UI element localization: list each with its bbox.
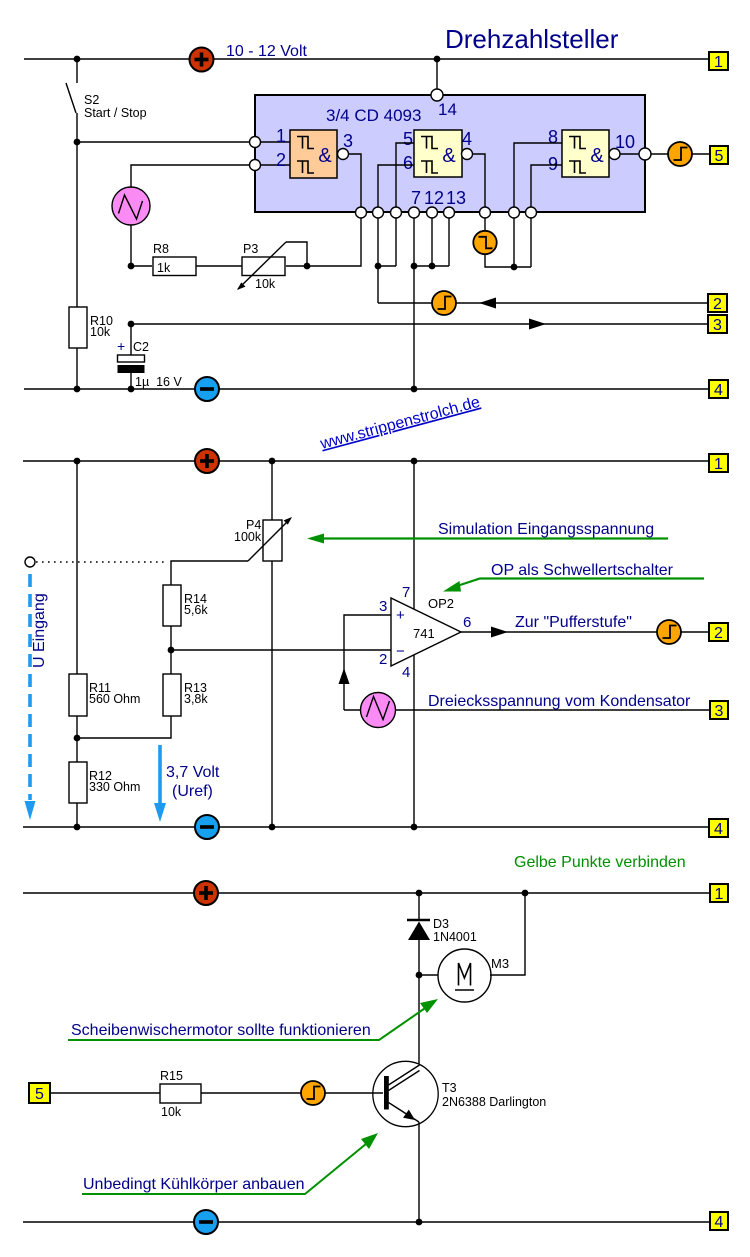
pin 8 bottom terminal circle [509, 207, 520, 218]
svg-text:4: 4 [462, 129, 472, 149]
svg-text:3: 3 [379, 598, 387, 615]
pin 13 bottom terminal circle [444, 207, 455, 218]
transistor T3 [373, 1061, 546, 1126]
terminal 2 (middle) [709, 623, 728, 642]
potentiometer P4 100k [234, 461, 292, 827]
ground rail bottom [23, 1221, 710, 1223]
capacitor C2 [117, 324, 182, 389]
svg-text:4: 4 [402, 664, 410, 681]
supply + symbol middle [195, 449, 219, 473]
wire pin4 to pins 8,9 [485, 218, 531, 267]
svg-text:3: 3 [713, 317, 722, 334]
svg-text:3/4 CD 4093: 3/4 CD 4093 [326, 106, 421, 125]
terminal 5 (bottom left) [29, 1083, 50, 1103]
green arrow Simulation Eingangsspannung [307, 534, 668, 544]
svg-text:14: 14 [438, 100, 457, 119]
wire line3 middle to terminal 3 [396, 709, 711, 711]
svg-text:Simulation Eingangsspannung: Simulation Eingangsspannung [438, 521, 654, 538]
node R11 top junction [74, 458, 81, 465]
svg-text:S2: S2 [84, 93, 99, 107]
node R10 ground junction [74, 386, 81, 393]
wire to base [325, 1092, 383, 1094]
svg-text:5: 5 [403, 129, 413, 149]
svg-text:3,7 Volt: 3,7 Volt [166, 764, 220, 781]
node emitter ground junction [416, 1219, 423, 1226]
svg-text:100k: 100k [234, 530, 262, 544]
supply - symbol bottom [194, 1210, 218, 1234]
op-amp OP2 741 [391, 596, 461, 666]
wire wiper to R14 [171, 561, 248, 585]
triangle-wave source symbol (oscillator) [112, 187, 150, 225]
node opamp supply junction [411, 458, 418, 465]
wire line 2 [378, 302, 432, 304]
svg-text:+: + [396, 607, 405, 624]
pin 14 terminal circle [431, 89, 443, 101]
wire to triangle source [344, 709, 361, 711]
wire R8 to P3 [196, 265, 242, 267]
IC CD4093 block [255, 95, 645, 212]
wire pin3 output [349, 154, 362, 207]
svg-text:330 Ohm: 330 Ohm [89, 780, 140, 794]
node gate1 input junction [74, 139, 81, 146]
node D3 junction [416, 890, 423, 897]
svg-text:&: & [442, 145, 456, 167]
node opamp ground junction [411, 824, 418, 831]
svg-text:3,8k: 3,8k [184, 692, 208, 706]
node pin8 junction [511, 264, 518, 271]
square pulse marker line2 (rising step) [432, 291, 456, 315]
wire pin2 inside block [261, 164, 291, 166]
pin 4 bottom terminal circle [480, 207, 491, 218]
+12V rail middle [23, 460, 709, 462]
U Eingang dashed arrow [25, 574, 36, 820]
svg-text:1N4001: 1N4001 [433, 930, 477, 944]
node R12 ground junction [74, 824, 81, 831]
svg-text:(Uref): (Uref) [172, 783, 213, 800]
gate U1A (NAND schmitt) [290, 130, 337, 178]
svg-text:Gelbe Punkte verbinden: Gelbe Punkte verbinden [514, 854, 686, 871]
wire osc to R8 node [130, 225, 132, 266]
svg-text:7: 7 [402, 584, 410, 601]
terminal 1 (top) [709, 52, 728, 71]
square pulse marker (rising step) [668, 142, 692, 166]
node R14/R13 junction [168, 647, 175, 654]
wire to motor [419, 974, 438, 976]
pin 12 bottom terminal circle [427, 207, 438, 218]
node S2 top junction [74, 56, 81, 63]
node motor left junction [416, 972, 423, 979]
arrowhead right output [491, 627, 508, 638]
svg-text:1: 1 [715, 886, 724, 903]
svg-text:2: 2 [714, 625, 723, 642]
label U Eingang [31, 593, 48, 668]
svg-text:2: 2 [713, 296, 722, 313]
supply + symbol bottom [194, 881, 218, 905]
resistor R14 5,6k [163, 585, 208, 674]
wire pin1 [77, 141, 250, 143]
ground rail top section [24, 388, 709, 390]
svg-text:4: 4 [715, 1214, 724, 1231]
resistor R13 3,8k [77, 674, 208, 738]
gate U1A output bubble [338, 149, 349, 160]
svg-text:Dreiecksspannung vom Kondensat: Dreiecksspannung vom Kondensator [428, 693, 691, 710]
green arrow OP als Schwellertschalter [443, 579, 704, 592]
svg-text:560 Ohm: 560 Ohm [89, 692, 140, 706]
wire pin4 output [473, 154, 486, 207]
svg-text:T3: T3 [442, 1081, 457, 1095]
wire emitter to ground rail [418, 1122, 420, 1222]
wire R15 to marker [201, 1092, 301, 1094]
svg-text:10k: 10k [90, 325, 111, 339]
dotted wire input to wiper node [36, 561, 166, 563]
svg-text:5,6k: 5,6k [184, 603, 208, 617]
terminal 4 (top) [709, 380, 728, 399]
square pulse marker base (rising step) [301, 1081, 325, 1105]
svg-text:7: 7 [411, 188, 421, 208]
triangle-wave source symbol (capacitor voltage) [361, 693, 396, 728]
svg-text:1: 1 [276, 126, 286, 146]
potentiometer P3 10k [237, 242, 307, 291]
arrowhead up on input wire [339, 668, 350, 684]
wire U1B inputs tie [378, 218, 396, 303]
wire pin1 inside block [261, 141, 291, 143]
pin 14 wire [436, 59, 438, 89]
gate U1B (NAND schmitt) [414, 130, 462, 177]
node pin7 junction [411, 263, 418, 270]
svg-text:2N6388 Darlington: 2N6388 Darlington [442, 1095, 546, 1109]
svg-text:4: 4 [714, 382, 723, 399]
wire non-inverting input [344, 615, 391, 710]
svg-text:5: 5 [35, 1086, 44, 1103]
arrowhead left line2 [479, 298, 496, 309]
svg-text:8: 8 [548, 127, 558, 147]
wire to R8 [131, 265, 152, 267]
wire to terminal 5 [692, 153, 710, 155]
input terminal open circle [25, 557, 35, 567]
gate U1B output bubble [462, 149, 473, 160]
arrowhead right line3 [529, 319, 546, 330]
node R8 junction [128, 263, 135, 270]
terminal 3 (top) [708, 315, 727, 334]
svg-text:Unbedingt Kühlkörper anbauen: Unbedingt Kühlkörper anbauen [83, 1176, 305, 1193]
gate U1C input wires [514, 143, 562, 207]
wire collector [418, 975, 420, 1070]
svg-text:M3: M3 [491, 956, 509, 971]
svg-text:10k: 10k [161, 1105, 182, 1119]
node R11/R12 junction [74, 735, 81, 742]
svg-text:5: 5 [715, 148, 724, 165]
node C2 ground junction [128, 386, 135, 393]
wire terminal5 to R15 [50, 1092, 160, 1094]
gate U1B input wires [396, 143, 414, 207]
svg-text:+: + [117, 338, 125, 354]
green arrow to motor [68, 999, 438, 1040]
svg-text:2: 2 [379, 651, 387, 668]
wire pin2 [131, 165, 250, 187]
wire line 3 [131, 323, 708, 325]
svg-text:Start / Stop: Start / Stop [84, 106, 147, 120]
supply - symbol top section [195, 377, 219, 401]
motor M3 [438, 949, 509, 1002]
resistor R11 560 Ohm [69, 461, 140, 762]
svg-text:2: 2 [276, 150, 286, 170]
svg-text:−: − [396, 643, 405, 660]
pin 1 terminal circle [250, 137, 261, 148]
diode D3 1N4001 [407, 893, 477, 975]
svg-text:12: 12 [424, 188, 444, 208]
square pulse marker output (rising step) [657, 620, 681, 644]
svg-text:4: 4 [714, 821, 723, 838]
svg-text:&: & [590, 145, 604, 167]
terminal 1 (middle) [709, 454, 728, 473]
pin 6 bottom terminal circle [373, 207, 384, 218]
node line3 junction [128, 321, 135, 328]
terminal 1 (bottom) [710, 884, 728, 903]
svg-text:C2: C2 [133, 340, 149, 354]
svg-text:10k: 10k [255, 277, 276, 291]
square pulse marker (falling step) [473, 231, 496, 254]
svg-text:1: 1 [714, 456, 723, 473]
wire op-amp output [461, 631, 657, 633]
switch S2 [66, 59, 147, 142]
svg-text:&: & [318, 145, 332, 167]
node motor junction [522, 890, 529, 897]
ground rail middle [23, 826, 709, 828]
wire to square-pulse marker [651, 153, 668, 155]
node pin7 ground junction [411, 386, 418, 393]
svg-text:741: 741 [413, 626, 435, 641]
green arrow to transistor [82, 1133, 378, 1194]
supply + symbol [190, 48, 214, 72]
svg-text:1µ 16 V: 1µ 16 V [135, 375, 182, 389]
wire pin10 output [620, 153, 639, 155]
pin 5 bottom terminal circle [391, 207, 402, 218]
pin 2 terminal circle [250, 160, 261, 171]
wire ground pins 7 12 13 [414, 218, 449, 389]
www.strippenstrolch.de watermark [318, 394, 482, 453]
Uref arrow [154, 745, 166, 822]
terminal 4 (middle) [709, 819, 728, 838]
resistor R12 330 Ohm [69, 762, 140, 827]
svg-text:R8: R8 [153, 242, 169, 256]
svg-text:P3: P3 [243, 242, 258, 256]
svg-text:6: 6 [463, 614, 471, 631]
gate U1C (NAND schmitt) [562, 130, 609, 177]
node P4 ground junction [269, 824, 276, 831]
resistor R8 1k [153, 242, 196, 276]
terminal 4 (bottom) [710, 1212, 728, 1231]
svg-text:13: 13 [446, 188, 466, 208]
svg-text:www.strippenstrolch.de: www.strippenstrolch.de [318, 394, 482, 453]
wire line2 to terminal 2 [456, 302, 708, 304]
svg-text:1: 1 [714, 54, 723, 71]
svg-text:Drehzahlsteller: Drehzahlsteller [445, 24, 619, 54]
pin 9 bottom terminal circle [526, 207, 537, 218]
svg-text:OP2: OP2 [428, 596, 454, 611]
terminal 3 (middle) [710, 701, 728, 720]
svg-text:1k: 1k [157, 261, 171, 275]
resistor R10 10k [69, 142, 113, 389]
block edge terminal circle pin10 [639, 148, 651, 160]
node pin14 junction [434, 56, 441, 63]
svg-text:9: 9 [548, 154, 558, 174]
wire to terminal 2 middle [681, 631, 709, 633]
wire inverting input [171, 649, 391, 651]
svg-text:3: 3 [715, 703, 724, 720]
node pin12 junction [429, 263, 436, 270]
svg-text:U Eingang: U Eingang [31, 593, 48, 668]
wire P3 to pin3 [286, 218, 361, 266]
pin 7 bottom terminal circle [409, 207, 420, 218]
node P3 wiper junction [304, 263, 311, 270]
wire motor to rail [490, 893, 525, 975]
pin 3 bottom terminal circle [356, 207, 367, 218]
supply - symbol middle [195, 815, 219, 839]
svg-text:D3: D3 [433, 917, 449, 931]
svg-text:Zur "Pufferstufe": Zur "Pufferstufe" [515, 614, 632, 631]
svg-text:10 - 12 Volt: 10 - 12 Volt [226, 43, 308, 60]
resistor R15 10k [160, 1069, 201, 1119]
+12V rail top [24, 58, 709, 60]
svg-text:R15: R15 [160, 1069, 183, 1083]
gate U1C output bubble [609, 149, 620, 160]
node U1B input junction [375, 263, 382, 270]
terminal 2 (top) [708, 294, 727, 313]
terminal 5 (top) [710, 146, 728, 165]
svg-text:Scheibenwischermotor sollte fu: Scheibenwischermotor sollte funktioniere… [71, 1022, 371, 1039]
opamp supply wire [413, 461, 415, 827]
svg-text:OP als Schwellertschalter: OP als Schwellertschalter [491, 562, 674, 579]
node P4 top junction [269, 458, 276, 465]
+12V rail bottom [23, 892, 710, 894]
svg-text:6: 6 [403, 153, 413, 173]
